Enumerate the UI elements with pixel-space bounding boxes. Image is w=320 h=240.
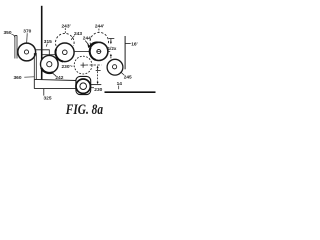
svg-text:244: 244 (83, 36, 91, 42)
node label 244' (95, 24, 105, 33)
dimension vertical displacement arrow at x 97.6 (96, 66, 101, 85)
node label 230 (91, 87, 103, 93)
node label 360 (14, 75, 35, 81)
phantom roller 243' dashed arc (56, 33, 75, 45)
node label 370 (23, 29, 31, 43)
svg-text:FIG. 8a: FIG. 8a (65, 102, 103, 118)
node label 325 (44, 89, 52, 102)
node ruler line 16' (125, 36, 138, 69)
wire arm from roller 370 to frame (36, 49, 42, 51)
node label 14 (117, 81, 123, 89)
svg-text:230: 230 (94, 87, 102, 93)
svg-text:230′: 230′ (62, 64, 72, 70)
svg-text:14: 14 (117, 81, 123, 87)
wire main vertical frame line 315 (41, 6, 43, 80)
phantom roller 230' dash-dot circle E (74, 56, 92, 74)
roller 230 (circle G) (76, 79, 90, 93)
phantom roller 244' dashed arc (90, 32, 108, 44)
roller 242 (circle B) (41, 55, 59, 73)
wire dashed centerline from 230' (86, 64, 102, 66)
wire web path from frame to roller 243 (42, 54, 56, 56)
node label 242 (53, 73, 64, 81)
svg-text:16′: 16′ (131, 42, 138, 48)
node right support wall 360 (34, 53, 36, 79)
svg-text:243′: 243′ (62, 23, 72, 29)
node label 244 with arrow to roller 244 (83, 36, 91, 48)
svg-text:243: 243 (74, 31, 82, 37)
roller 245 (circle F) (107, 59, 123, 75)
roller 244 (circle D) (90, 42, 111, 60)
svg-text:244′: 244′ (95, 24, 105, 30)
wire tangent between rollers 243 and 244 (74, 51, 90, 53)
svg-text:315: 315 (44, 39, 52, 45)
node left bracket wall for roller 350 (15, 35, 17, 58)
svg-text:325: 325 (44, 96, 52, 102)
svg-text:1/2x: 1/2x (108, 46, 117, 51)
node label 243 (71, 31, 82, 40)
node label 315 (44, 39, 52, 47)
roller 370 (circle A) (18, 43, 36, 61)
svg-text:360: 360 (14, 75, 22, 81)
svg-text:350: 350 (4, 30, 12, 36)
node platform box 325 (34, 79, 101, 88)
roller 243 (circle C) (55, 43, 74, 62)
wire web path upper from frame toward roller 242 (42, 50, 50, 55)
node label 350 (4, 30, 15, 38)
dimension 1/2x (108, 39, 117, 59)
node label 245 (120, 72, 132, 81)
wire tangent between rollers 242 and 243 (50, 59, 59, 61)
node label 230' (62, 64, 75, 70)
node capsule bracket for roller 230 (76, 76, 91, 94)
wire web line 14 (105, 91, 156, 93)
svg-text:245: 245 (124, 75, 132, 81)
node label 243' (62, 23, 72, 33)
